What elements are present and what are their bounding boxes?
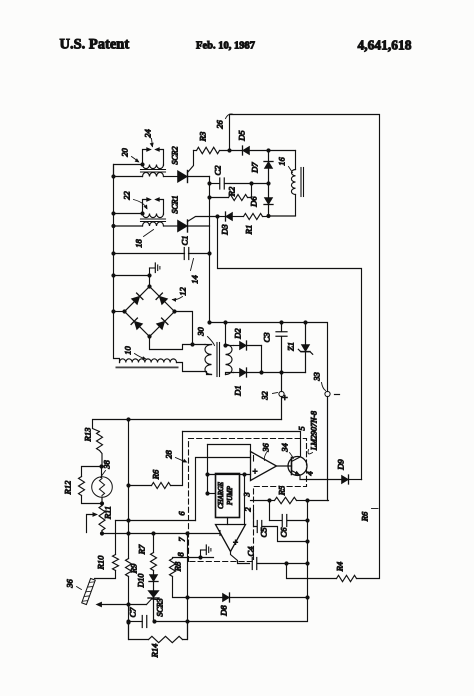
wire x187 [185, 534, 189, 640]
wire plus rail [207, 320, 327, 391]
breaker 36 [82, 578, 96, 604]
bridge rectifier 12 [122, 284, 176, 338]
svg-text:16: 16 [277, 157, 287, 166]
label 18 [134, 230, 154, 248]
label 28 [164, 450, 188, 463]
wire bus to ground node [111, 273, 151, 277]
svg-text:18: 18 [134, 239, 144, 248]
svg-text:R3: R3 [198, 132, 208, 142]
label 30 [196, 327, 215, 346]
wire op2 output [231, 552, 250, 564]
label 38 [101, 460, 112, 478]
wire gate rail [130, 599, 152, 605]
wire D2 to D1 join [259, 346, 263, 375]
diode D9 [342, 475, 362, 484]
C7 label [128, 607, 138, 618]
R5 label [277, 486, 287, 496]
label 34 [280, 443, 294, 459]
SCR2 [178, 151, 210, 183]
R11 label [103, 506, 113, 520]
diode D2 [234, 341, 262, 350]
lamp 38 [92, 464, 113, 497]
label 16 [277, 157, 293, 173]
R1 label [244, 225, 254, 235]
resistor R3 [194, 147, 220, 153]
IC box 28 dashed outline [189, 439, 307, 562]
svg-text:+: + [233, 538, 238, 548]
SCR3 [148, 591, 159, 622]
zener Z1 [298, 323, 312, 373]
ground [150, 263, 160, 276]
R3 label [198, 132, 208, 142]
svg-text:D9: D9 [336, 459, 346, 471]
svg-text:SCR2: SCR2 [171, 146, 180, 164]
pin 5 label [297, 426, 307, 430]
svg-text:R14: R14 [150, 643, 160, 658]
svg-text:LM2907N-8: LM2907N-8 [310, 411, 319, 451]
svg-text:R5: R5 [277, 486, 287, 496]
svg-text:12: 12 [178, 287, 188, 296]
transformer 22 (ignition coil) [140, 197, 165, 226]
svg-text:3: 3 [242, 492, 252, 497]
R13 label [83, 428, 93, 443]
C3 label [262, 333, 272, 343]
svg-text:C3: C3 [262, 333, 272, 343]
svg-text:R2: R2 [227, 186, 237, 197]
wire inner link [208, 493, 216, 495]
svg-text:SCR1: SCR1 [171, 195, 180, 213]
diode D6 [264, 184, 273, 217]
label 14 [190, 259, 200, 284]
svg-text:R11: R11 [103, 506, 113, 520]
R8 label [173, 561, 183, 572]
label 12 [172, 287, 188, 302]
svg-text:R9: R9 [129, 563, 139, 574]
wire left bus [114, 165, 120, 363]
wire 22 primary left [111, 224, 142, 228]
wire R5 to 33 [308, 500, 329, 502]
svg-text:4,641,618: 4,641,618 [358, 38, 412, 53]
svg-text:R6: R6 [151, 469, 161, 480]
SCR1 [178, 217, 218, 233]
header: U.S. Patent [60, 37, 130, 53]
SCR1 label [171, 195, 180, 213]
SCR2 label [171, 146, 180, 164]
wire bridge left vertex to bus [111, 309, 124, 313]
wire 22 secondary to left bus [111, 211, 142, 215]
transformer 20 (ignition coil) [140, 147, 165, 176]
svg-text:R4: R4 [335, 561, 345, 572]
wire lamp bottom [100, 497, 104, 506]
wire D6 node to coil16 bottom [269, 215, 296, 217]
wire 20 primary right to SCR2 [164, 176, 178, 178]
svg-text:33: 33 [312, 372, 322, 382]
diode D10 [149, 571, 158, 591]
wire D5 to node [250, 148, 296, 152]
C5 label [259, 528, 269, 538]
wire node-26 top rail [230, 115, 380, 579]
resistor R7 [151, 534, 157, 571]
plus sign [281, 394, 292, 400]
label 22 [122, 191, 148, 210]
wire 20 secondary to left bus [114, 165, 143, 177]
svg-text:R1: R1 [244, 225, 254, 235]
capacitor C7 [129, 616, 147, 628]
R4 label [335, 561, 345, 572]
label 33 [312, 372, 326, 390]
svg-text:26: 26 [215, 120, 225, 129]
svg-text:38: 38 [102, 460, 112, 470]
resistor R8 [170, 559, 188, 598]
C6 label [279, 527, 289, 538]
C4 label [246, 546, 256, 557]
svg-text:28: 28 [164, 450, 174, 459]
R11 wiper arrow [87, 512, 99, 532]
svg-text:22: 22 [122, 191, 132, 200]
C2 label [213, 165, 223, 176]
wire bus R9 [128, 419, 130, 559]
wire bus below R9 [126, 577, 130, 640]
wire ground node to bridge [149, 276, 151, 287]
label LM2907N-8 [308, 411, 319, 454]
C1 label [180, 236, 190, 246]
diode D8 [188, 593, 308, 602]
op-amp 2 [216, 525, 246, 552]
wire collector rail [183, 432, 301, 457]
minus sign [335, 394, 340, 396]
resistor R12 [79, 467, 102, 504]
svg-text:R12: R12 [63, 480, 73, 495]
R6 label (right rail) [360, 509, 379, 523]
D6 label [249, 196, 259, 208]
svg-text:6: 6 [177, 511, 187, 516]
svg-text:R13: R13 [83, 428, 93, 443]
wire center bus [209, 177, 211, 323]
SCR3 label [156, 598, 165, 616]
wire right mid bus [126, 501, 309, 624]
capacitor C5 [254, 511, 310, 544]
label 36 [261, 443, 271, 461]
D3 label [220, 224, 230, 235]
wire C2 node to D7/D6 [252, 181, 271, 185]
D8 label [219, 605, 229, 617]
diode D1 [234, 368, 262, 377]
resistor R6a [126, 432, 182, 489]
pin 3 label [242, 492, 252, 497]
svg-text:7: 7 [177, 537, 187, 542]
label 36b [65, 579, 82, 590]
wire 30 right top to +rail [223, 320, 227, 344]
wire bridge bottom to coil 10 [150, 337, 206, 350]
svg-text:R6: R6 [360, 511, 370, 522]
transformer 30 [205, 343, 232, 377]
svg-text:R7: R7 [137, 544, 147, 555]
header: patent number 4,641,618 [358, 38, 412, 53]
Z1 label [286, 342, 296, 351]
wire ic inner bus [205, 445, 209, 496]
wire pin3 [251, 498, 272, 502]
label 10 [123, 346, 147, 360]
svg-text:D10: D10 [137, 574, 146, 589]
svg-text:Feb. 10, 1987: Feb. 10, 1987 [196, 41, 255, 52]
svg-text:CHARGE: CHARGE [218, 481, 225, 509]
svg-text:10: 10 [123, 346, 133, 355]
svg-text:C6: C6 [279, 527, 289, 538]
wire minus rail [262, 370, 306, 374]
label 32 [260, 391, 278, 401]
pin 7 label [177, 537, 187, 542]
wire R11 bottom rail [102, 531, 221, 535]
label 20 [120, 148, 140, 163]
svg-text:D2: D2 [233, 328, 243, 340]
svg-text:C1: C1 [180, 236, 190, 246]
wire 22 primary right to SCR1 [164, 225, 178, 227]
svg-text:+: + [281, 394, 292, 400]
capacitor C4 [252, 558, 309, 570]
diode D7 [264, 151, 273, 184]
coil 16 [291, 151, 303, 216]
resistor R5 [270, 497, 310, 503]
wire plus input op1 [208, 472, 251, 476]
header: date Feb. 10, 1987 [196, 41, 255, 52]
svg-text:PUMP: PUMP [227, 486, 234, 506]
svg-text:R8: R8 [173, 561, 183, 572]
capacitor C6 [270, 501, 310, 527]
svg-text:36: 36 [261, 443, 271, 453]
ground 2 [173, 545, 214, 560]
wire bridge right vertex to transformer 30 [175, 312, 195, 347]
D2 label [233, 328, 243, 340]
wire emitter to D9 [300, 475, 342, 480]
coil 10 [116, 359, 179, 368]
capacitor C2 [207, 178, 253, 189]
R6a label [151, 469, 161, 480]
transistor 34 [277, 457, 308, 476]
svg-text:14: 14 [190, 275, 200, 284]
wire pump output [227, 518, 229, 525]
wire inner rail [208, 445, 251, 452]
R2 label [227, 186, 237, 197]
svg-text:D8: D8 [219, 605, 229, 617]
svg-text:D1: D1 [233, 385, 243, 396]
svg-text:U.S. Patent: U.S. Patent [60, 37, 130, 53]
wire pump to plus [244, 475, 246, 525]
svg-text:C2: C2 [213, 165, 223, 176]
wire 30 right bottom [226, 373, 234, 375]
D1 label [233, 385, 243, 396]
terminal 32 (+) [279, 373, 284, 420]
D7 label [250, 162, 260, 174]
svg-text:D3: D3 [220, 224, 230, 235]
diode D5 [243, 146, 250, 155]
svg-text:D5: D5 [237, 130, 247, 141]
svg-text:Z1: Z1 [286, 342, 296, 351]
resistor R4 [337, 575, 379, 581]
resistor R2 [207, 184, 251, 201]
svg-text:34: 34 [280, 443, 290, 453]
resistor R13 [97, 432, 103, 467]
wire 30 left top [205, 344, 212, 346]
capacitor C1 [111, 248, 211, 260]
capacitor C3 [276, 323, 287, 373]
svg-text:36: 36 [65, 579, 75, 589]
R7 label [137, 544, 147, 555]
resistor R1 [244, 214, 271, 220]
D5 label [237, 130, 247, 141]
svg-text:+: + [252, 467, 257, 477]
svg-text:30: 30 [196, 327, 206, 337]
pin 6 label [177, 511, 187, 516]
D10 label [137, 574, 146, 589]
charge pump block [216, 474, 240, 518]
svg-text:SCR3: SCR3 [156, 598, 165, 616]
svg-text:C7: C7 [128, 607, 138, 618]
pin 4 label [305, 471, 315, 476]
pin 8 label [176, 552, 186, 557]
wire coil 10 right to transformer 30 [177, 363, 212, 375]
terminal 33 (-) [325, 391, 330, 500]
potentiometer R11 [99, 504, 105, 536]
wire minus rail op1 [196, 458, 251, 521]
svg-text:24: 24 [143, 129, 153, 138]
wire plus rail horizontal [93, 417, 282, 431]
diode D3 [215, 212, 243, 221]
op-amp 36 [251, 452, 277, 481]
svg-text:8: 8 [176, 552, 186, 557]
wire R3 to D5 [220, 148, 243, 152]
R12 label [63, 480, 73, 495]
wire R4 branch [287, 564, 337, 579]
pin 2 label [243, 507, 253, 512]
svg-text:32: 32 [260, 391, 270, 401]
D9 label [336, 459, 346, 471]
wire 30 tap to D2 [223, 343, 233, 347]
svg-text:5: 5 [297, 426, 307, 430]
svg-text:C4: C4 [246, 546, 256, 557]
R10 label [96, 555, 106, 570]
wire D3 junction to right rail [218, 217, 362, 480]
resistor R14 [129, 622, 188, 643]
node 26 label [215, 114, 234, 129]
resistor R9 [126, 559, 132, 577]
spark gap 24 label [143, 129, 154, 148]
svg-text:D7: D7 [250, 162, 260, 174]
resistor R10 [95, 521, 119, 579]
svg-text:R10: R10 [96, 555, 106, 570]
R9 label [129, 563, 139, 574]
R14 label [150, 643, 160, 658]
svg-text:C5: C5 [259, 528, 269, 538]
wire 20 primary left [111, 174, 142, 178]
svg-text:20: 20 [120, 148, 130, 157]
points arrow [96, 602, 130, 608]
wire pin6 [116, 518, 196, 522]
